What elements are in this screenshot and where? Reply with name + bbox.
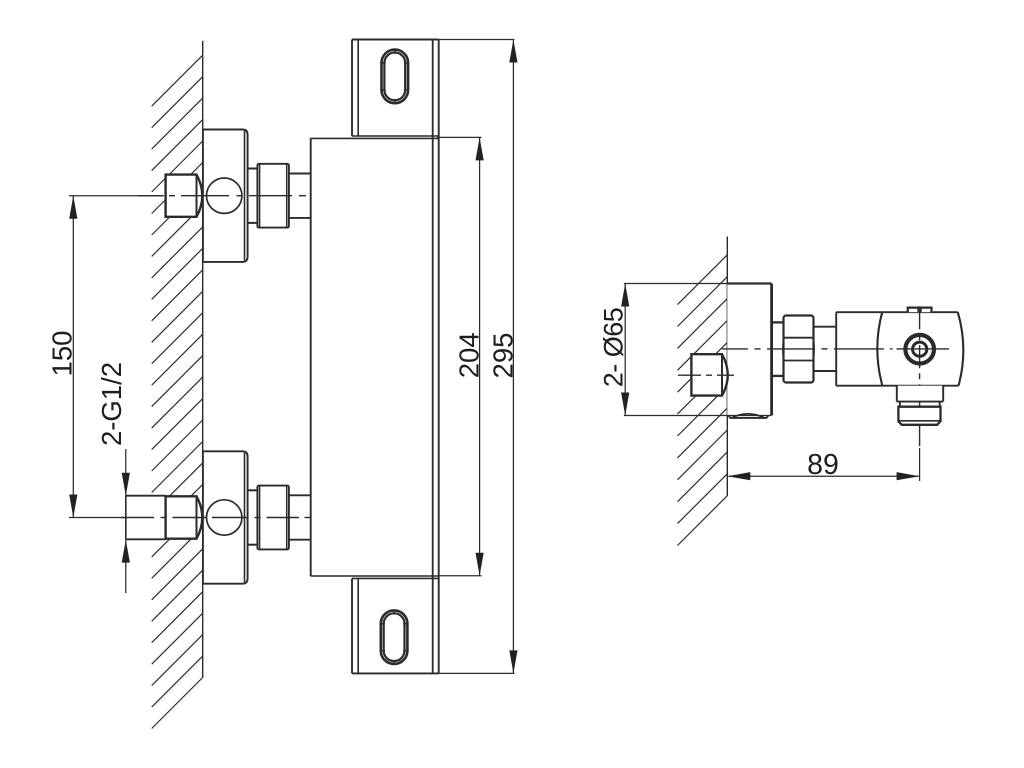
dimension 2-Ø65 line with arrows [621,284,629,416]
valve vertical centerline [919,306,921,448]
union tailpiece stubs [248,169,258,223]
bottom wall fitting (square socket) [166,496,203,538]
union stub lines behind nut [772,322,784,376]
dimension 204 line with arrows [476,137,484,575]
wall hatching (side view) [678,255,728,546]
top inlet centerline [138,195,306,197]
outlet step ring [900,402,940,407]
temperature stop button on top [908,308,932,313]
svg-text:295: 295 [488,333,519,379]
extension lines for 2-Ø65 [624,284,772,416]
dimension 150 line with arrows [69,196,77,518]
handle inner ring [913,342,927,356]
mixer body (front view) [311,138,439,576]
top union hex nut [257,164,289,228]
bottom inlet centerline [121,517,310,519]
valve main block (side view) [836,312,963,386]
bottom union flange plate [203,451,248,583]
extension lines for 204 [437,137,482,575]
connecting tube to mixer body [289,174,311,218]
union tailpiece stubs [248,490,258,544]
wall hatching (front view) [152,55,203,728]
escutcheon cover plate (edge view) [727,284,771,418]
handle outer ring [905,335,934,364]
top union flange plate [203,130,248,262]
svg-text:204: 204 [454,332,485,378]
bottom eccentric ball [207,500,242,535]
outlet thread G1/2 [898,407,940,425]
bottom union hex nut [257,486,289,550]
side-view fitting centerline [678,374,734,376]
inlet pipe nipple G1/2 (bottom, through wall) [126,496,166,540]
extension line, top inlet center [69,195,164,197]
top wall fitting (square socket) [166,175,203,217]
valve rear section (side view) [836,312,882,386]
bottom mounting bracket [352,578,439,673]
bottom bracket slotted hole [381,610,408,664]
connecting tube to mixer body [289,495,311,539]
svg-text:2-G1/2: 2-G1/2 [96,362,127,446]
dimension 89 line with arrows [727,472,919,480]
extension lines for 295 [439,40,515,674]
union hex nut (side view) [783,316,814,383]
top mounting bracket [352,40,439,137]
extension line below outlet [919,448,921,481]
svg-text:89: 89 [807,449,839,481]
wall line (front view) [202,41,204,678]
svg-text:150: 150 [47,331,78,377]
svg-text:2- Ø65: 2- Ø65 [599,308,629,388]
side-view wall fitting (square socket) [691,354,727,395]
valve horizontal centerline [722,348,949,350]
extension line, bottom inlet center [69,517,126,519]
shower outlet neck [897,386,943,402]
top eccentric ball [207,178,242,213]
wall line (side view) [726,237,728,497]
top bracket slotted hole [382,50,409,104]
dimension 295 line with arrows [509,40,517,674]
dimension 2-G1/2 leader arrows [122,449,130,593]
tube between nut and valve body [814,327,837,371]
right edge of body and brackets [433,40,439,674]
